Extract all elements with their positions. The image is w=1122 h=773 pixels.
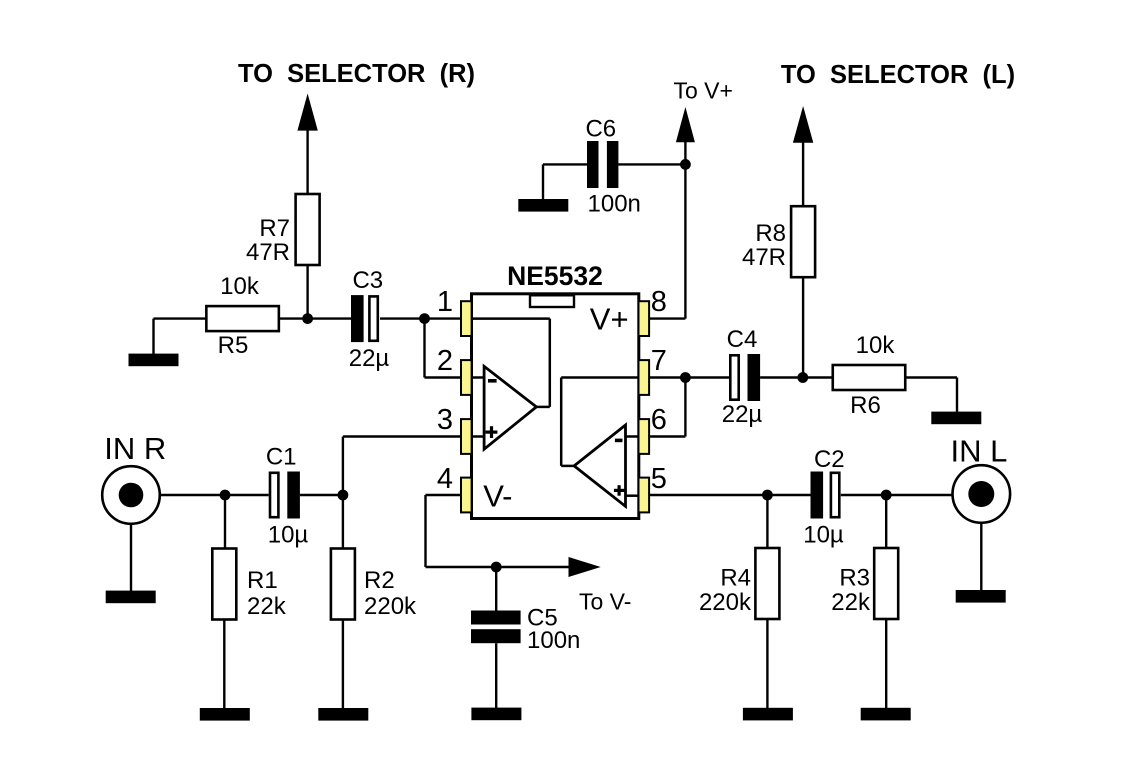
op-amp U1A minus sign — [488, 379, 497, 383]
svg-text:3: 3 — [437, 404, 453, 436]
svg-text:6: 6 — [651, 404, 667, 436]
op-amp U1B triangle — [574, 425, 625, 506]
resistor R3 — [874, 548, 898, 619]
wire V- node to C5 — [495, 567, 497, 611]
svg-text:To V-: To V- — [579, 588, 631, 614]
input jack IN L center pin — [968, 481, 994, 507]
op-amp IC U1 NE5532 body — [472, 294, 639, 519]
svg-text:22µ: 22µ — [722, 401, 763, 428]
svg-text:22k: 22k — [831, 589, 871, 616]
node B junction C4/R8/R6 — [797, 372, 808, 383]
output arrow TO SELECTOR (L) — [793, 106, 813, 143]
svg-text:V+: V+ — [590, 302, 629, 337]
wire C6 to ground — [543, 163, 587, 165]
op-amp U1B minus sign — [615, 439, 623, 443]
svg-text:10k: 10k — [856, 332, 896, 359]
node D junction C1/R2/pin3 — [338, 490, 349, 501]
wire jack IN R to ground — [130, 524, 132, 592]
node pin7/pin6 strap junction — [680, 372, 691, 383]
capacitor C5 — [471, 611, 521, 625]
wire node D down to R2 — [342, 495, 344, 549]
svg-text:1: 1 — [437, 286, 453, 318]
IC notch — [530, 295, 574, 307]
resistor R5 — [206, 306, 279, 331]
ground at R5 — [129, 354, 179, 367]
wire node E down to R4 — [766, 495, 768, 549]
resistor R6 — [833, 365, 906, 390]
svg-text:IN R: IN R — [104, 431, 166, 466]
wire op-amp U1B output to pin 7 — [561, 465, 574, 468]
svg-text:10µ: 10µ — [803, 521, 844, 548]
input jack IN L outer ring — [953, 465, 1011, 523]
wire V+ node down to pin 8 — [684, 164, 686, 318]
pin 2 pad — [461, 360, 472, 395]
svg-text:10k: 10k — [220, 273, 260, 300]
svg-text:8: 8 — [651, 286, 667, 318]
svg-text:R2: R2 — [364, 567, 395, 594]
svg-text:5: 5 — [651, 463, 667, 495]
wire R3 to ground — [885, 619, 887, 709]
op-amp U1B plus sign — [614, 489, 624, 492]
svg-text:10µ: 10µ — [268, 521, 309, 548]
output arrow TO SELECTOR (R) — [297, 94, 317, 131]
svg-text:R4: R4 — [720, 564, 751, 591]
svg-text:220k: 220k — [699, 589, 752, 616]
svg-text:22µ: 22µ — [349, 345, 390, 372]
ground at R3 — [861, 708, 911, 721]
node A junction R5/R7/C3 — [302, 313, 313, 324]
pin 7 pad — [639, 360, 650, 395]
wire C5 to ground — [495, 643, 497, 708]
wire R4 to ground — [766, 619, 768, 709]
svg-text:IN L: IN L — [951, 434, 1008, 469]
capacitor C4 electrolytic — [730, 355, 738, 399]
ground at IN L — [956, 590, 1006, 603]
capacitor C2 electrolytic — [811, 472, 824, 519]
wire C6 to V+ node — [618, 163, 685, 165]
op-amp U1A plus sign — [486, 431, 498, 434]
wire arrow to V+ node — [684, 140, 686, 164]
wire IN R to node C — [160, 494, 269, 496]
wire pin 7 to C4 — [649, 376, 729, 378]
pin 4 pad — [461, 478, 472, 513]
wire pin 4 to V- node — [426, 494, 462, 496]
svg-text:7: 7 — [651, 345, 667, 377]
node E junction R4/C2 — [762, 490, 773, 501]
node pin1/pin2 strap junction — [419, 313, 430, 324]
op-amp U1A non-inverting input wire pin 3 — [472, 435, 485, 438]
wire node D up to pin 3 — [342, 437, 344, 496]
svg-text:100n: 100n — [588, 190, 641, 217]
pin 3 pad — [461, 419, 472, 454]
svg-text:C1: C1 — [266, 444, 297, 471]
pin 6 pad — [639, 419, 650, 454]
ground at C6 — [518, 199, 568, 212]
resistor R1 — [212, 549, 236, 620]
capacitor C6 — [587, 141, 599, 188]
svg-text:47R: 47R — [246, 239, 290, 266]
node F junction R3/jack — [881, 490, 892, 501]
ground at R2 — [318, 708, 368, 721]
supply arrow To V+ — [676, 107, 695, 142]
svg-text:R6: R6 — [850, 392, 881, 419]
wire node F down to R3 — [885, 495, 887, 549]
svg-text:100n: 100n — [527, 627, 580, 654]
op-amp U1A inverting input wire pin 2 — [472, 376, 485, 379]
wire pin 5 to node E — [649, 494, 810, 496]
ground at IN R — [106, 591, 156, 604]
ground at R6 — [931, 412, 981, 425]
resistor R4 — [755, 548, 779, 619]
capacitor C1 electrolytic — [270, 473, 278, 517]
wire arrow to R8 — [802, 140, 804, 207]
wire C1 to node D — [300, 494, 343, 496]
ground at R1 — [200, 708, 250, 721]
resistor R7 — [296, 194, 320, 265]
svg-text:R1: R1 — [247, 567, 278, 594]
wire R5 to node A — [279, 317, 351, 319]
svg-text:4: 4 — [437, 463, 453, 495]
ground at R4 — [743, 708, 793, 721]
svg-text:TO SELECTOR (L): TO SELECTOR (L) — [781, 61, 1015, 89]
svg-text:C6: C6 — [585, 116, 616, 143]
node V- junction C5 — [491, 562, 502, 573]
svg-text:47R: 47R — [742, 244, 786, 271]
svg-text:C4: C4 — [727, 326, 758, 353]
pin 8 pad — [639, 301, 650, 336]
svg-text:V-: V- — [483, 479, 512, 514]
input jack IN R center pin — [119, 483, 144, 508]
ground at C5 — [471, 708, 521, 721]
wire R7 to node A — [306, 265, 308, 319]
pin 5 pad — [639, 478, 650, 513]
wire C2 to node F — [841, 494, 953, 496]
svg-text:TO SELECTOR (R): TO SELECTOR (R) — [238, 60, 475, 88]
wire op-amp U1A output to pin 1 — [536, 406, 549, 409]
node V+ junction — [680, 159, 691, 170]
wire node C down to R1 — [224, 495, 226, 549]
svg-text:R5: R5 — [218, 332, 249, 359]
wire R8 to node B — [802, 277, 804, 378]
wire R6 to ground — [905, 376, 957, 378]
wire R2 to ground — [342, 620, 344, 710]
input jack IN R outer ring — [102, 466, 160, 524]
svg-text:2: 2 — [437, 345, 453, 377]
svg-text:To V+: To V+ — [674, 78, 733, 104]
wire C4 to node B — [760, 376, 833, 378]
wire ground to R5 — [152, 319, 154, 355]
op-amp U1B inverting input wire pin 6 — [626, 435, 639, 438]
wire strap node down to pin 6 — [684, 378, 686, 437]
wire strap node down to pin 2 — [423, 319, 425, 378]
capacitor C3 electrolytic — [351, 295, 364, 342]
svg-text:220k: 220k — [364, 593, 417, 620]
svg-text:C3: C3 — [352, 267, 383, 294]
node C junction jack/R1/C1 — [220, 490, 231, 501]
wire jack IN L to ground — [980, 523, 982, 591]
supply arrow To V- — [569, 557, 601, 577]
svg-text:C2: C2 — [814, 446, 845, 473]
op-amp U1B non-inverting input wire pin 5 — [626, 494, 639, 497]
wire arrow to R7 — [306, 128, 308, 195]
pin 1 pad — [461, 301, 472, 336]
svg-text:22k: 22k — [247, 593, 287, 620]
op-amp U1A triangle — [484, 366, 536, 449]
wire R1 to ground — [223, 620, 225, 710]
svg-text:R3: R3 — [839, 564, 870, 591]
svg-text:NE5532: NE5532 — [507, 261, 603, 291]
wire C3 to pin 1 node — [380, 317, 461, 319]
resistor R8 — [791, 206, 815, 277]
resistor R2 — [331, 549, 355, 620]
